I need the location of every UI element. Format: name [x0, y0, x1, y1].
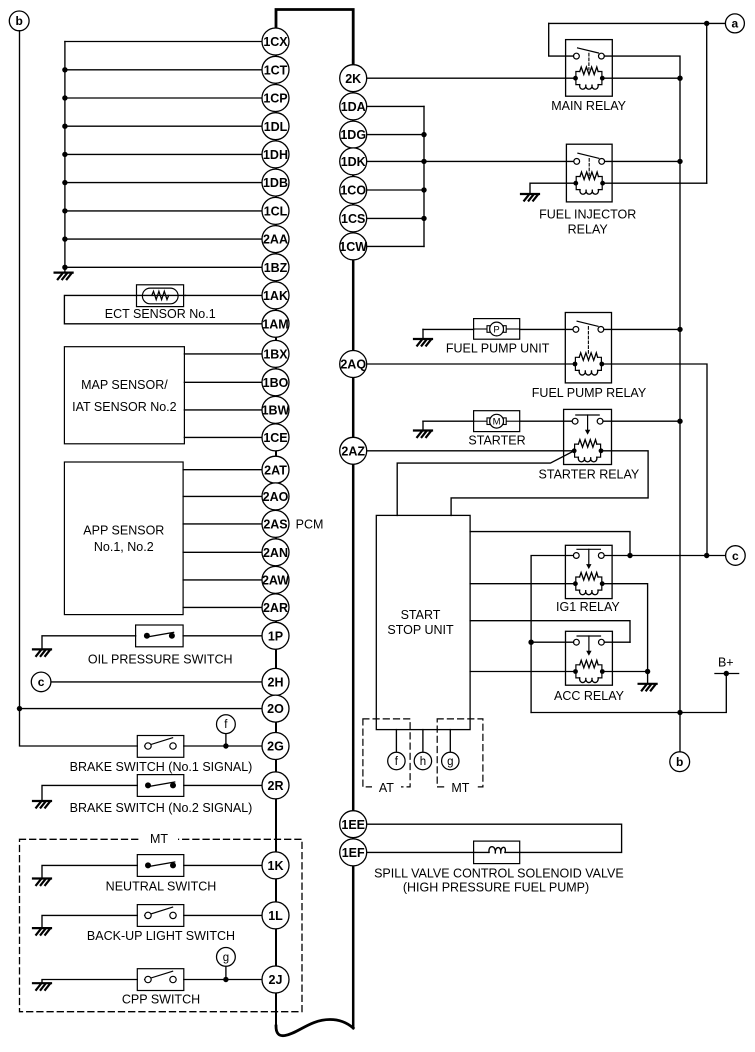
svg-text:2AW: 2AW [262, 574, 289, 588]
svg-text:b: b [676, 755, 683, 769]
svg-text:AT: AT [379, 781, 394, 795]
svg-text:MT: MT [451, 781, 469, 795]
svg-text:FUEL INJECTOR: FUEL INJECTOR [539, 208, 636, 222]
svg-text:1CS: 1CS [341, 212, 365, 226]
svg-text:B+: B+ [718, 656, 734, 670]
svg-text:1DA: 1DA [341, 100, 366, 114]
svg-text:1DK: 1DK [341, 155, 366, 169]
svg-text:1BZ: 1BZ [264, 261, 288, 275]
svg-text:g: g [447, 756, 453, 768]
svg-text:1DH: 1DH [263, 148, 288, 162]
svg-text:RELAY: RELAY [568, 222, 609, 236]
svg-text:2AR: 2AR [263, 601, 288, 615]
svg-text:1DL: 1DL [264, 120, 288, 134]
svg-text:b: b [16, 14, 23, 28]
svg-text:1P: 1P [268, 629, 283, 643]
svg-text:1CE: 1CE [263, 431, 287, 445]
svg-text:c: c [732, 549, 739, 563]
svg-text:1BO: 1BO [263, 376, 289, 390]
svg-text:1CT: 1CT [264, 63, 288, 77]
svg-text:(HIGH PRESSURE FUEL PUMP): (HIGH PRESSURE FUEL PUMP) [403, 881, 589, 895]
svg-text:1AM: 1AM [262, 317, 288, 331]
svg-text:2G: 2G [267, 740, 284, 754]
svg-text:ECT SENSOR No.1: ECT SENSOR No.1 [105, 307, 216, 321]
svg-text:STOP UNIT: STOP UNIT [387, 623, 454, 637]
svg-text:2AO: 2AO [263, 490, 289, 504]
svg-text:1BX: 1BX [263, 348, 288, 362]
svg-text:1EF: 1EF [342, 846, 365, 860]
svg-text:MT: MT [150, 832, 168, 846]
svg-text:1K: 1K [268, 859, 284, 873]
svg-text:2H: 2H [268, 676, 284, 690]
svg-text:1CO: 1CO [340, 184, 366, 198]
svg-text:STARTER RELAY: STARTER RELAY [539, 468, 640, 482]
svg-text:1CX: 1CX [263, 35, 288, 49]
svg-text:BRAKE SWITCH (No.2 SIGNAL): BRAKE SWITCH (No.2 SIGNAL) [70, 801, 253, 815]
svg-text:OIL PRESSURE SWITCH: OIL PRESSURE SWITCH [88, 652, 233, 666]
svg-text:2AS: 2AS [263, 518, 287, 532]
svg-text:START: START [401, 608, 441, 622]
svg-text:STARTER: STARTER [468, 434, 525, 448]
svg-text:1L: 1L [268, 909, 283, 923]
svg-text:P: P [493, 324, 499, 335]
svg-text:FUEL PUMP RELAY: FUEL PUMP RELAY [532, 386, 647, 400]
svg-text:2R: 2R [268, 779, 284, 793]
svg-text:h: h [420, 756, 426, 768]
svg-text:CPP SWITCH: CPP SWITCH [122, 992, 200, 1006]
svg-text:2K: 2K [345, 72, 361, 86]
svg-text:1DG: 1DG [340, 128, 366, 142]
svg-text:2AT: 2AT [264, 463, 287, 477]
svg-text:2AZ: 2AZ [341, 444, 365, 458]
svg-text:a: a [732, 17, 739, 31]
svg-text:1DB: 1DB [263, 176, 288, 190]
svg-text:MAIN RELAY: MAIN RELAY [551, 99, 626, 113]
svg-text:SPILL VALVE CONTROL SOLENOID V: SPILL VALVE CONTROL SOLENOID VALVE [374, 867, 624, 881]
svg-text:1CW: 1CW [339, 240, 367, 254]
svg-text:2AN: 2AN [263, 546, 288, 560]
svg-text:2AQ: 2AQ [340, 358, 366, 372]
svg-text:IAT SENSOR No.2: IAT SENSOR No.2 [72, 400, 176, 414]
svg-text:APP SENSOR: APP SENSOR [83, 524, 164, 538]
svg-text:g: g [223, 952, 229, 964]
svg-text:2O: 2O [267, 702, 284, 716]
svg-text:M: M [493, 417, 501, 428]
svg-text:IG1 RELAY: IG1 RELAY [556, 600, 620, 614]
svg-text:MAP SENSOR/: MAP SENSOR/ [81, 378, 168, 392]
svg-text:1AK: 1AK [263, 289, 288, 303]
svg-text:FUEL PUMP UNIT: FUEL PUMP UNIT [446, 342, 550, 356]
svg-text:PCM: PCM [296, 517, 324, 531]
svg-text:2AA: 2AA [263, 233, 288, 247]
svg-text:1EE: 1EE [341, 818, 365, 832]
svg-text:1CL: 1CL [264, 205, 288, 219]
svg-text:NEUTRAL SWITCH: NEUTRAL SWITCH [106, 880, 217, 894]
svg-text:BACK-UP LIGHT SWITCH: BACK-UP LIGHT SWITCH [87, 929, 235, 943]
svg-text:ACC RELAY: ACC RELAY [554, 689, 625, 703]
svg-text:1CP: 1CP [263, 92, 287, 106]
svg-text:c: c [38, 675, 45, 689]
svg-text:No.1, No.2: No.1, No.2 [94, 540, 154, 554]
svg-text:2J: 2J [269, 973, 283, 987]
svg-text:1BW: 1BW [262, 404, 290, 418]
svg-text:BRAKE SWITCH (No.1 SIGNAL): BRAKE SWITCH (No.1 SIGNAL) [70, 760, 253, 774]
